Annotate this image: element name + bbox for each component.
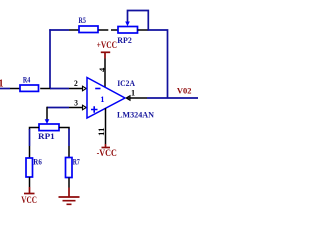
svg-text:R4: R4	[23, 75, 31, 84]
svg-text:V02: V02	[177, 86, 192, 96]
svg-text:2: 2	[74, 78, 78, 88]
svg-text:-VCC: -VCC	[97, 148, 117, 158]
svg-text:VCC: VCC	[21, 195, 37, 205]
svg-text:RP1: RP1	[38, 132, 55, 141]
svg-text:LM324AN: LM324AN	[117, 110, 154, 119]
svg-text:1: 1	[131, 88, 135, 98]
svg-text:R5: R5	[79, 16, 86, 25]
svg-text:11: 11	[96, 127, 106, 136]
svg-text:1: 1	[100, 94, 104, 104]
svg-text:R6: R6	[33, 158, 42, 167]
svg-text:3: 3	[74, 97, 78, 107]
svg-text:+VCC: +VCC	[97, 40, 118, 50]
svg-text:RP2: RP2	[117, 36, 132, 45]
svg-text:R7: R7	[73, 158, 80, 167]
